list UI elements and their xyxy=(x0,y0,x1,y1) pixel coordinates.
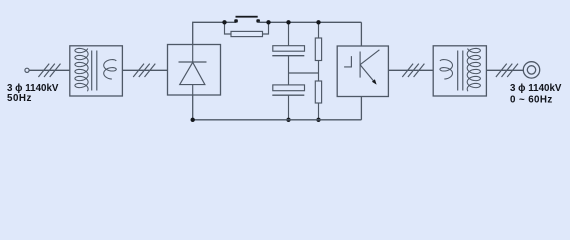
3-phase slash marks xyxy=(38,64,60,77)
svg-text:0 ~ 60Hz: 0 ~ 60Hz xyxy=(510,94,553,105)
capacitor C1 xyxy=(273,46,305,52)
junction node right of contactor xyxy=(266,20,270,24)
transformer T2 box xyxy=(433,46,486,96)
svg-text:3 ϕ 1140kV: 3 ϕ 1140kV xyxy=(510,83,562,94)
midpoint wire xyxy=(289,72,319,74)
wire inverter DC+ drop xyxy=(360,22,362,46)
IGBT V1 gate lead xyxy=(344,56,351,67)
wire R2 to R3 xyxy=(318,61,320,82)
transformer T2 primary winding xyxy=(440,60,453,79)
junction node C2 bottom xyxy=(286,118,290,122)
junction node C1 top xyxy=(286,20,290,24)
IGBT V1 emitter line with arrow xyxy=(360,65,374,81)
junction node bottom left xyxy=(191,118,195,122)
3-phase slash marks xyxy=(133,64,155,77)
rectifier box xyxy=(168,45,221,96)
input terminal xyxy=(25,68,29,72)
wire xyxy=(486,69,523,71)
svg-text:50Hz: 50Hz xyxy=(7,93,32,104)
wire rectifier DC- drop xyxy=(192,95,194,120)
3-phase slash marks xyxy=(402,64,424,77)
contactor KM bridging bar xyxy=(236,16,258,18)
transformer T1 primary winding xyxy=(75,48,88,91)
wire xyxy=(122,69,167,71)
IGBT V1 collector line xyxy=(360,50,379,65)
transformer T1 core xyxy=(91,51,93,91)
junction node R2 top xyxy=(316,20,320,24)
capacitor C2 xyxy=(288,73,290,85)
capacitor C1 top wire xyxy=(288,22,290,45)
precharge resistor R1 xyxy=(231,31,263,36)
junction node R3 bottom xyxy=(316,118,320,122)
precharge resistor R1 leads xyxy=(225,22,232,34)
inverter box xyxy=(337,46,388,97)
wire xyxy=(29,69,70,71)
wire rectifier DC+ riser xyxy=(193,22,236,44)
wire C1 to midpoint xyxy=(288,56,290,73)
balancing resistor R3 xyxy=(315,81,321,103)
bottom bus xyxy=(193,119,362,121)
3-phase slash marks xyxy=(496,64,518,77)
transformer T2 secondary winding xyxy=(467,48,480,91)
balancing resistor R2 xyxy=(318,22,320,38)
diode D1 xyxy=(192,45,194,63)
junction node left of contactor xyxy=(222,20,226,24)
wire top bus right of contactor xyxy=(258,21,361,23)
output terminal (motor) xyxy=(523,62,539,78)
contactor KM right contact xyxy=(256,19,260,22)
contactor KM left contact xyxy=(234,19,238,22)
IGBT V1 bar xyxy=(359,52,361,78)
wire xyxy=(388,69,433,71)
transformer T1 box xyxy=(70,46,123,96)
wire C2 to bottom bus xyxy=(288,95,290,120)
transformer T1 secondary winding xyxy=(104,60,117,79)
transformer T2 core xyxy=(457,51,459,91)
wire inverter bottom xyxy=(360,97,362,120)
